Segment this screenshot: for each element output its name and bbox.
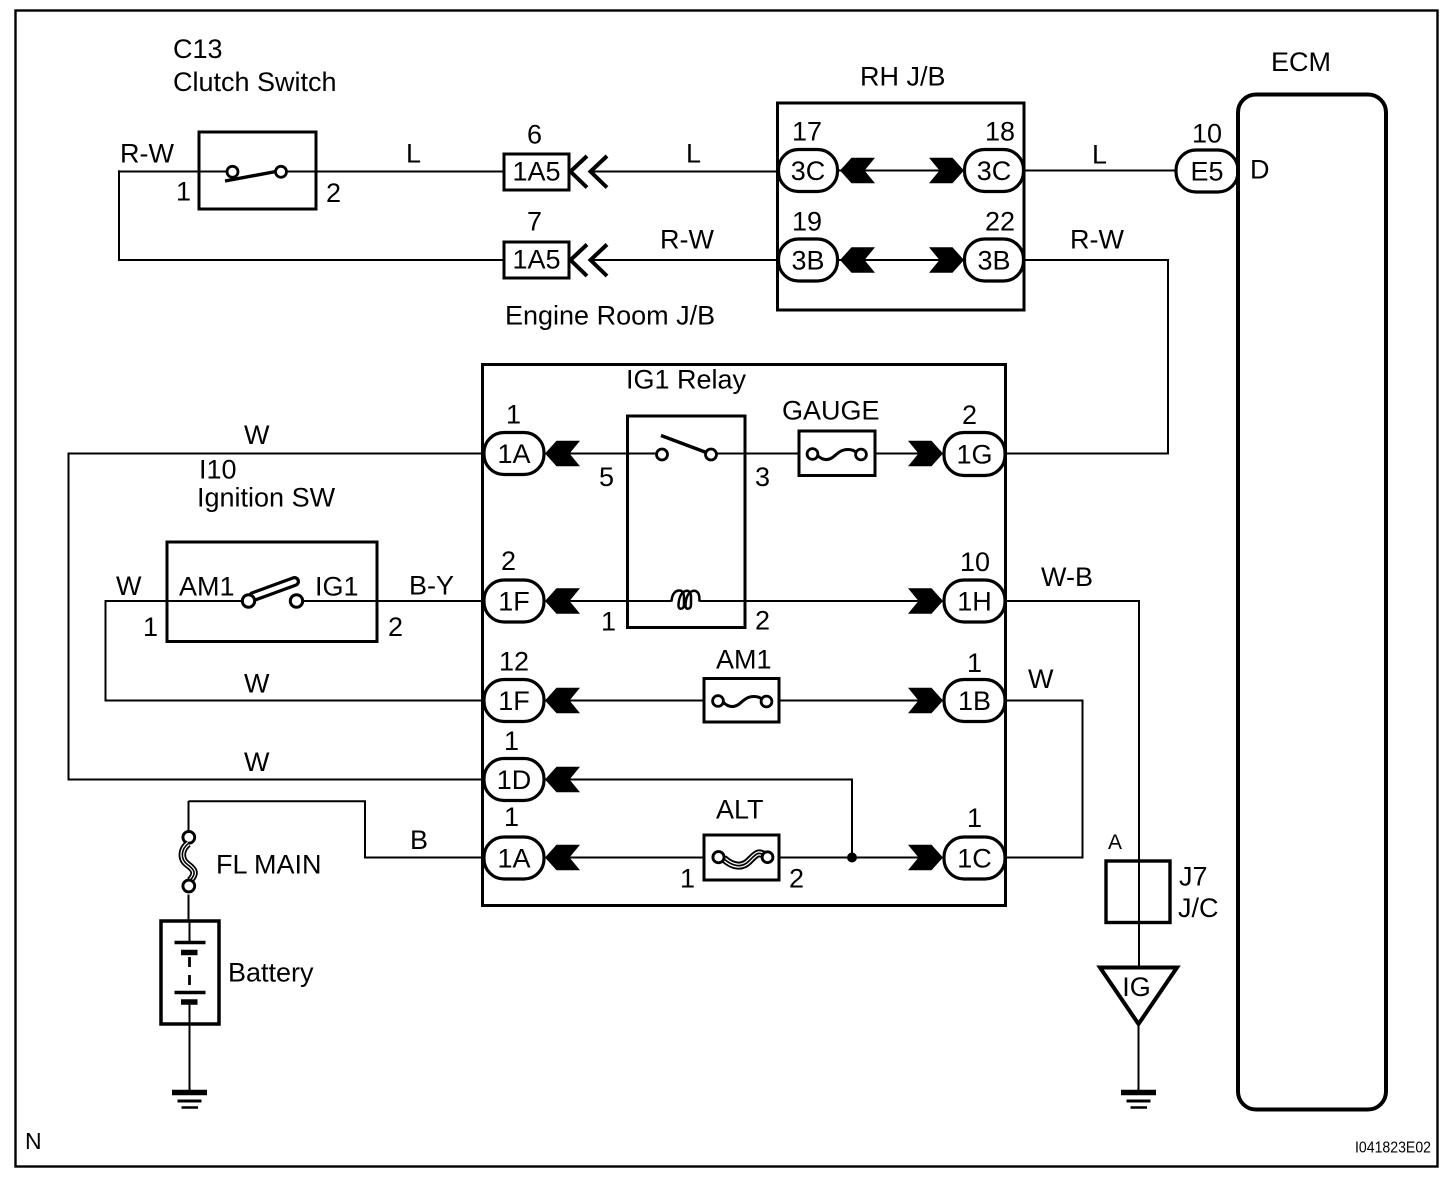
fusible link FL MAIN (182, 801, 194, 921)
wire W from ignition switch AM1 down to 1F pin12 (106, 601, 485, 701)
svg-text:2: 2 (755, 606, 770, 636)
fusible link ALT (704, 835, 779, 880)
svg-text:3C: 3C (791, 156, 826, 186)
svg-text:1: 1 (680, 864, 695, 894)
wire W row 1A top: from left border to 1A (69, 454, 485, 780)
wire 1D right and down to ALT junction (569, 780, 852, 858)
svg-text:12: 12 (499, 647, 529, 677)
wire L from clutch switch pin 2 to junction 1A5 no.6 (316, 171, 504, 173)
svg-text:R-W: R-W (1070, 225, 1124, 255)
wire R-W from clutch switch pin 1 down and right to junction 1A5 no.7 (119, 171, 199, 173)
svg-text:GAUGE: GAUGE (782, 396, 880, 426)
svg-text:1H: 1H (957, 587, 992, 617)
svg-text:B-Y: B-Y (409, 571, 454, 601)
svg-text:L: L (406, 139, 421, 169)
svg-text:W: W (244, 747, 270, 777)
battery (161, 921, 219, 1024)
svg-text:1: 1 (176, 177, 191, 207)
svg-text:10: 10 (1192, 119, 1222, 149)
wire inside RH J/B row 2 (837, 259, 964, 261)
chevrons at 1A5 no.7 (571, 245, 608, 277)
fuse GAUGE (799, 431, 875, 476)
svg-text:Ignition SW: Ignition SW (197, 483, 336, 513)
ground battery (172, 1093, 207, 1108)
connector 1B (944, 680, 1005, 722)
svg-text:AM1: AM1 (716, 645, 772, 675)
svg-text:1: 1 (967, 803, 982, 833)
arrow at 1F pin12 (545, 688, 580, 713)
svg-text:1A5: 1A5 (512, 157, 560, 187)
svg-text:2: 2 (326, 178, 341, 208)
svg-text:3B: 3B (977, 246, 1010, 276)
arrow at 1C (908, 845, 943, 870)
wire IG triangle to ground (1138, 1024, 1140, 1090)
wire AM1 fuse to 1B (779, 700, 920, 702)
svg-text:22: 22 (985, 207, 1015, 237)
wire W-B from 1H to J7 (1005, 601, 1139, 860)
connector 1A5 no.6 (504, 154, 569, 190)
connector 1F pin12 (484, 680, 544, 722)
svg-text:L: L (1092, 140, 1107, 170)
svg-text:1: 1 (504, 726, 519, 756)
svg-text:Battery: Battery (228, 958, 314, 988)
svg-text:1A: 1A (497, 439, 530, 469)
relay coil (672, 591, 700, 609)
svg-text:19: 19 (792, 207, 822, 237)
svg-text:1F: 1F (498, 686, 530, 716)
wire 1F pin12 to AM1 fuse (569, 700, 704, 702)
ground point IG triangle (1100, 968, 1177, 1025)
svg-text:IG1 Relay: IG1 Relay (626, 365, 747, 395)
arrow left RH row1 (840, 158, 875, 183)
svg-text:I041823E02: I041823E02 (1355, 1140, 1431, 1157)
wire 1A bottom to ALT fuse (569, 857, 704, 859)
svg-text:2: 2 (962, 400, 977, 430)
arrow at 1A bottom (545, 845, 580, 870)
connector 3C pin 17 (779, 150, 838, 192)
svg-text:1D: 1D (497, 765, 532, 795)
svg-text:FL MAIN: FL MAIN (216, 850, 322, 880)
wire coil to 1H arrow (699, 600, 919, 602)
arrow right RH row2 (929, 247, 964, 272)
ECM box (1238, 95, 1386, 1110)
wire R-W from 3B pin22 right and down to 1G (1005, 260, 1168, 454)
svg-text:W: W (244, 420, 270, 450)
svg-text:1: 1 (506, 400, 521, 430)
clutch switch C13 label (173, 34, 337, 97)
svg-text:L: L (686, 139, 701, 169)
svg-text:I10: I10 (199, 455, 237, 485)
ignition switch I10 label (197, 455, 336, 513)
svg-text:ECM: ECM (1271, 47, 1331, 77)
wire L from 3C pin18 to ECM E5 (1024, 170, 1176, 172)
wire ALT fuse to 1C (779, 857, 920, 859)
wire W from 1B down to 1C (1005, 701, 1083, 858)
svg-text:ALT: ALT (716, 795, 764, 825)
svg-text:3B: 3B (791, 246, 824, 276)
svg-text:W-B: W-B (1041, 562, 1093, 592)
wire contact to GAUGE fuse (717, 453, 800, 455)
wire GAUGE to 1G (875, 453, 920, 455)
arrow at 1B (908, 688, 943, 713)
connector E5 pin 10 (1176, 150, 1238, 192)
svg-text:J/C: J/C (1178, 893, 1219, 923)
arrow at 1G (908, 441, 943, 466)
fuse AM1 (704, 679, 779, 723)
svg-text:IG1: IG1 (315, 572, 359, 602)
wire 1A to relay contact (569, 453, 656, 455)
svg-text:1A: 1A (497, 844, 530, 874)
svg-text:18: 18 (985, 117, 1015, 147)
connector 1A5 no.7 (504, 242, 569, 278)
clutch switch C13 (199, 132, 316, 209)
wire B-Y from ignition switch IG1 to 1F pin2 (296, 600, 484, 602)
junction connector J7 J/C (1106, 861, 1170, 923)
svg-text:1: 1 (967, 648, 982, 678)
svg-text:A: A (1108, 831, 1122, 854)
svg-text:7: 7 (527, 207, 542, 237)
svg-text:N: N (25, 1128, 42, 1154)
svg-text:AM1: AM1 (179, 572, 235, 602)
svg-text:R-W: R-W (660, 225, 714, 255)
svg-text:2: 2 (789, 864, 804, 894)
connector 1A bottom (484, 837, 544, 879)
connector 3C pin 18 (965, 150, 1024, 192)
svg-text:2: 2 (501, 546, 516, 576)
chevrons at 1A5 no.6 (571, 156, 608, 188)
wire inside RH J/B row 1 (837, 170, 964, 172)
ground IG (1121, 1093, 1156, 1108)
connector 1F pin2 (484, 580, 544, 622)
svg-text:Clutch Switch: Clutch Switch (173, 67, 337, 97)
svg-text:R-W: R-W (120, 139, 174, 169)
junction dot ALT/1D (847, 853, 857, 863)
wire 1F to relay coil (569, 600, 672, 602)
svg-text:RH J/B: RH J/B (860, 62, 946, 92)
RH J/B box (778, 103, 1025, 310)
svg-text:B: B (410, 825, 428, 855)
wire J7 to IG triangle (1138, 923, 1140, 968)
svg-text:C13: C13 (173, 34, 223, 64)
svg-text:J7: J7 (1179, 862, 1208, 892)
connector 1D (484, 759, 544, 801)
arrow at 1D (545, 767, 580, 792)
svg-text:1: 1 (143, 612, 158, 642)
svg-text:1F: 1F (498, 587, 530, 617)
svg-text:2: 2 (388, 612, 403, 642)
svg-text:1B: 1B (958, 686, 991, 716)
svg-text:W: W (1028, 664, 1054, 694)
wire R-W from 1A5 no.7 to RH J/B 3B pin19 (590, 259, 780, 261)
svg-text:Engine Room J/B: Engine Room J/B (505, 301, 715, 331)
wire B from battery to 1A bottom (189, 801, 485, 857)
svg-text:IG: IG (1122, 972, 1151, 1002)
arrow right RH row1 (929, 158, 964, 183)
svg-text:17: 17 (792, 117, 822, 147)
wire L from 1A5 no.6 to RH J/B 3C pin17 (590, 171, 780, 173)
wire battery to ground (189, 1024, 191, 1090)
svg-text:E5: E5 (1190, 157, 1223, 187)
label J7 J/C (1178, 862, 1219, 924)
relay coil-contact box (628, 416, 746, 628)
svg-text:3: 3 (755, 462, 770, 492)
svg-text:1: 1 (504, 802, 519, 832)
svg-text:D: D (1250, 155, 1270, 185)
svg-text:10: 10 (960, 547, 990, 577)
connector 1C (944, 837, 1005, 879)
svg-text:5: 5 (599, 462, 614, 492)
arrow left RH row2 (840, 247, 875, 272)
svg-text:1C: 1C (957, 844, 992, 874)
connector 1H (944, 580, 1005, 622)
svg-text:1G: 1G (956, 440, 992, 470)
svg-text:3C: 3C (977, 156, 1012, 186)
arrow at 1H (908, 588, 943, 613)
svg-text:W: W (116, 571, 142, 601)
connector 3B pin 19 (779, 239, 838, 281)
svg-text:6: 6 (527, 120, 542, 150)
relay contact (657, 436, 717, 461)
arrow at 1F pin2 (545, 588, 580, 613)
svg-text:W: W (244, 669, 270, 699)
svg-text:1A5: 1A5 (512, 245, 560, 275)
ignition switch I10 box (167, 542, 377, 642)
connector 3B pin 22 (965, 239, 1024, 281)
IG1 Relay box (483, 365, 1006, 906)
connector 1G (944, 433, 1005, 476)
arrow at 1A top (545, 441, 580, 466)
connector 1A top (484, 433, 544, 475)
svg-text:1: 1 (601, 607, 616, 637)
